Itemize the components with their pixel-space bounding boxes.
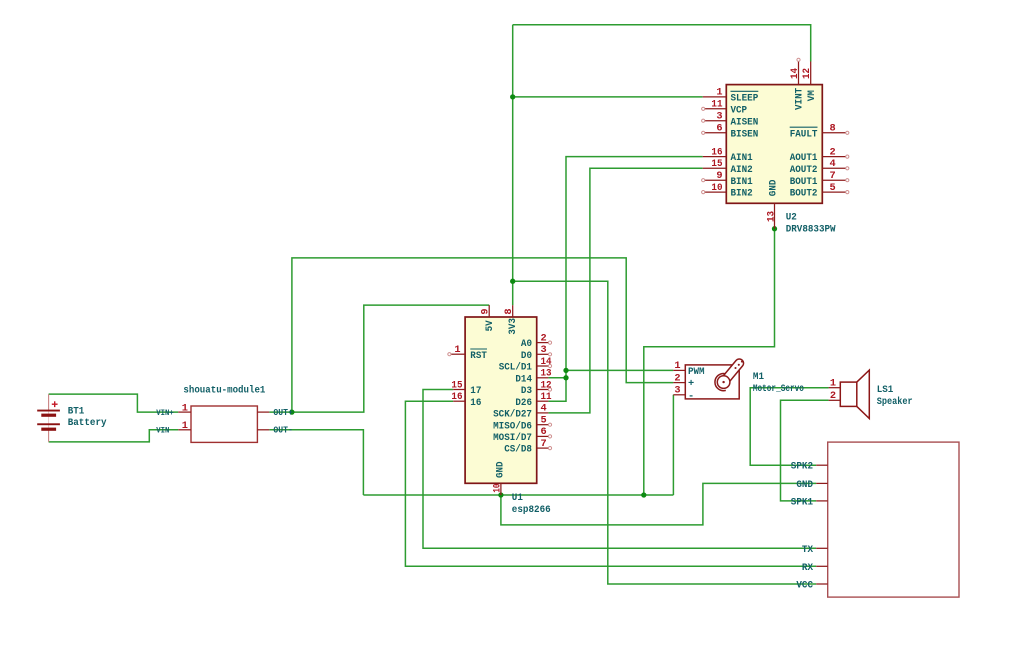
svg-text:esp8266: esp8266 — [512, 504, 551, 516]
junction PWM net — [563, 368, 568, 373]
svg-text:15: 15 — [451, 379, 462, 391]
svg-text:BISEN: BISEN — [731, 128, 759, 140]
MODULE1 pin 1 VIN — [156, 420, 191, 435]
M1 pin 1 PWM — [673, 360, 704, 378]
U1 pin 10 GND (bottom) — [492, 461, 507, 495]
svg-text:AIN2: AIN2 — [731, 164, 753, 176]
svg-text:3V3: 3V3 — [507, 318, 519, 335]
U2 pin 8 FAULT — [790, 123, 849, 141]
svg-text:MISO/D6: MISO/D6 — [493, 420, 532, 432]
svg-text:RX: RX — [802, 562, 814, 574]
U1 pin 16 (16) — [451, 391, 481, 409]
svg-text:VM: VM — [806, 90, 818, 101]
wire OUT- to GND bus — [269, 430, 363, 495]
svg-text:1: 1 — [182, 403, 188, 415]
wire AIN2 to SCK/D27 — [548, 168, 702, 413]
svg-text:9: 9 — [716, 170, 722, 182]
U2 pin 5 BOUT2 — [790, 182, 849, 200]
wire SLEEP — [513, 96, 703, 98]
U1 pin 3 D0 — [521, 344, 552, 362]
U2 pin 2 AOUT1 — [790, 146, 849, 164]
wire battery plus to VIN+ — [49, 394, 179, 412]
svg-text:D0: D0 — [521, 350, 532, 362]
svg-text:BT1: BT1 — [68, 405, 85, 417]
svg-text:5V: 5V — [484, 320, 496, 332]
wire GND bus — [363, 494, 673, 496]
svg-text:SPK2: SPK2 — [791, 461, 813, 473]
label Battery — [68, 417, 107, 429]
svg-text:1: 1 — [674, 360, 680, 372]
svg-text:16: 16 — [470, 397, 481, 409]
battery BT1 symbol — [37, 394, 60, 442]
U1 pin 12 D3 — [521, 379, 552, 397]
junction D14 net — [563, 375, 568, 380]
wire speaker pin2 to SPK1 — [781, 400, 829, 501]
svg-text:AOUT1: AOUT1 — [790, 152, 818, 164]
junction 3V3/VCC net — [510, 279, 515, 284]
svg-text:6: 6 — [541, 426, 547, 438]
svg-text:GND: GND — [495, 461, 507, 478]
svg-text:2: 2 — [674, 372, 680, 384]
speaker LS1 symbol — [840, 370, 869, 418]
svg-text:17: 17 — [470, 385, 481, 397]
svg-text:VCC: VCC — [796, 580, 813, 592]
J1 pin RX — [802, 562, 828, 574]
junction OUT+ — [289, 409, 294, 414]
U2 pin 13 GND (bottom) — [765, 180, 779, 229]
svg-text:1: 1 — [454, 344, 460, 356]
svg-text:3: 3 — [716, 111, 722, 123]
U2 pin 10 BIN2 — [702, 182, 753, 200]
svg-text:BIN2: BIN2 — [731, 188, 753, 200]
svg-text:SLEEP: SLEEP — [731, 93, 759, 105]
U2 pin 3 AISEN — [702, 111, 759, 129]
svg-text:2: 2 — [830, 390, 836, 402]
svg-text:16: 16 — [451, 391, 462, 403]
U2 pin 15 AIN2 — [703, 158, 753, 176]
connector J1 body (bottom right box) — [828, 442, 959, 597]
U2 pin 9 BIN1 — [702, 170, 753, 188]
svg-text:A0: A0 — [521, 338, 532, 350]
svg-text:PWM: PWM — [688, 366, 705, 378]
wire TX — [423, 390, 816, 549]
svg-text:D26: D26 — [515, 397, 532, 409]
U1 pin 6 MOSI/D7 — [493, 426, 552, 444]
label shouatu-module1 — [183, 385, 265, 397]
label U1 — [512, 492, 523, 504]
U1 pin 14 SCL/D1 — [499, 356, 552, 374]
wire VCC from 3V3 junction — [513, 281, 817, 584]
svg-text:VIN: VIN — [156, 426, 169, 436]
wire OUT+ to M1 plus — [292, 258, 673, 412]
wire U2 GND down — [644, 229, 775, 495]
svg-text:4: 4 — [830, 158, 836, 170]
motor M1 body (Motor_Servo) — [685, 361, 743, 399]
wire GND to box — [501, 483, 816, 525]
U1 pin 13 D14 — [515, 368, 551, 386]
label Motor_Servo — [753, 383, 804, 395]
svg-text:11: 11 — [711, 99, 722, 111]
svg-text:8: 8 — [503, 308, 515, 314]
svg-text:2: 2 — [830, 146, 836, 158]
wire AIN1 to D26 — [548, 157, 702, 402]
svg-text:D14: D14 — [515, 373, 532, 385]
svg-text:+: + — [688, 378, 694, 390]
U1 pin 11 D26 — [515, 391, 551, 409]
op-amp U2 body (DRV8833PW) — [726, 85, 822, 204]
U1 pin 5 MISO/D6 — [493, 415, 552, 433]
svg-text:-: - — [688, 390, 694, 402]
MODULE1 pin 1 VIN+ — [156, 403, 191, 418]
U2 pin 1 SLEEP — [703, 87, 759, 105]
svg-text:3: 3 — [541, 344, 547, 356]
svg-text:TX: TX — [802, 544, 814, 556]
wire M1 minus — [672, 395, 674, 495]
svg-text:4: 4 — [541, 403, 547, 415]
svg-text:8: 8 — [830, 123, 836, 135]
U2 pin 7 BOUT1 — [790, 170, 849, 188]
svg-text:10: 10 — [492, 484, 504, 493]
U1 pin 8 3V3 (top) — [503, 305, 519, 334]
svg-text:CS/D8: CS/D8 — [504, 444, 532, 456]
svg-text:OUT+: OUT+ — [273, 407, 293, 418]
U2 pin 11 VCP — [702, 99, 747, 117]
svg-text:SPK1: SPK1 — [791, 496, 813, 508]
svg-text:15: 15 — [711, 158, 722, 170]
svg-text:5: 5 — [830, 182, 836, 194]
wire 3V3 vertical — [512, 25, 514, 305]
wire speaker pin1 to SPK2 — [750, 388, 828, 466]
svg-text:VINT: VINT — [794, 88, 806, 110]
wire VM top — [513, 25, 811, 62]
svg-text:9: 9 — [480, 308, 492, 314]
svg-text:6: 6 — [716, 123, 722, 135]
svg-text:GND: GND — [768, 180, 780, 197]
svg-text:14: 14 — [541, 356, 552, 368]
label esp8266 — [512, 504, 551, 516]
svg-text:SCK/D27: SCK/D27 — [493, 409, 532, 421]
svg-text:13: 13 — [541, 368, 552, 380]
svg-text:Speaker: Speaker — [877, 396, 913, 408]
svg-text:AOUT2: AOUT2 — [790, 164, 818, 176]
module MODULE1 body (shouatu-module1) — [191, 406, 257, 442]
wire PWM — [566, 369, 673, 371]
M1 pin 3 - — [673, 385, 694, 403]
LS1 pin 2 — [829, 390, 841, 402]
U1 pin 15 (17) — [451, 379, 481, 397]
svg-text:13: 13 — [765, 211, 777, 222]
svg-text:11: 11 — [541, 391, 552, 403]
svg-text:LS1: LS1 — [877, 384, 894, 396]
U2 pin 16 AIN1 — [703, 146, 753, 164]
label DRV8833PW — [786, 223, 837, 235]
wire RX — [405, 401, 816, 566]
svg-text:3: 3 — [674, 385, 680, 397]
svg-text:BOUT2: BOUT2 — [790, 188, 818, 200]
svg-text:14: 14 — [789, 68, 801, 79]
label LS1 — [877, 384, 894, 396]
U1 pin 7 CS/D8 — [504, 438, 551, 456]
U1 pin 4 SCK/D27 — [493, 403, 548, 421]
label Speaker — [877, 396, 913, 408]
MODULE1 pin OUT- — [257, 425, 293, 436]
MODULE1 pin OUT+ — [257, 407, 293, 418]
svg-text:DRV8833PW: DRV8833PW — [786, 223, 837, 235]
svg-text:M1: M1 — [753, 371, 764, 383]
svg-text:10: 10 — [711, 182, 722, 194]
IC U1 body (esp8266) — [465, 317, 537, 483]
J1 pin GND — [796, 479, 827, 491]
svg-text:1: 1 — [716, 87, 722, 99]
U1 pin 2 A0 — [521, 332, 552, 350]
svg-text:1: 1 — [830, 378, 836, 390]
svg-text:SCL/D1: SCL/D1 — [499, 362, 532, 374]
U2 pin 12 VM (top) — [801, 62, 818, 102]
svg-text:7: 7 — [830, 170, 836, 182]
svg-text:D3: D3 — [521, 385, 532, 397]
svg-text:Motor_Servo: Motor_Servo — [753, 383, 804, 395]
svg-text:FAULT: FAULT — [790, 128, 818, 140]
svg-text:MOSI/D7: MOSI/D7 — [493, 432, 532, 444]
J1 pin VCC — [796, 580, 827, 592]
U2 pin 4 AOUT2 — [790, 158, 849, 176]
svg-text:Battery: Battery — [68, 417, 107, 429]
U1 pin 9 5V (top) — [480, 305, 497, 331]
wire D14 — [548, 377, 566, 379]
svg-text:5: 5 — [541, 415, 547, 427]
svg-text:7: 7 — [541, 438, 547, 450]
svg-text:OUT-: OUT- — [273, 425, 293, 436]
svg-text:AISEN: AISEN — [731, 116, 759, 128]
svg-text:VCP: VCP — [731, 104, 748, 116]
U2 pin 6 BISEN — [702, 123, 759, 141]
label BT1 — [68, 405, 85, 417]
svg-text:16: 16 — [711, 146, 722, 158]
U2 pin 14 VINT (top, unconnected) — [789, 58, 806, 110]
J1 pin SPK1 — [791, 496, 828, 508]
wire battery minus to VIN — [49, 430, 179, 442]
U1 pin 1 RST — [448, 344, 487, 362]
junction U1 GND — [498, 492, 503, 497]
svg-text:BIN1: BIN1 — [731, 176, 753, 188]
LS1 pin 1 — [829, 378, 841, 390]
label M1 — [753, 371, 764, 383]
J1 pin SPK2 — [791, 461, 828, 473]
svg-text:RST: RST — [470, 350, 487, 362]
junction U2 GND on bus — [641, 492, 646, 497]
svg-text:12: 12 — [541, 379, 552, 391]
svg-text:AIN1: AIN1 — [731, 152, 753, 164]
J1 pin TX — [802, 544, 828, 556]
svg-text:12: 12 — [801, 68, 813, 79]
M1 pin 2 + — [673, 372, 694, 390]
svg-text:2: 2 — [541, 332, 547, 344]
svg-text:U1: U1 — [512, 492, 523, 504]
junction U2 GND pin — [772, 226, 777, 231]
svg-text:BOUT1: BOUT1 — [790, 176, 818, 188]
svg-text:1: 1 — [182, 420, 188, 432]
svg-text:GND: GND — [796, 479, 813, 491]
svg-text:U2: U2 — [786, 212, 797, 224]
junction SLEEP/3V3 net — [510, 94, 515, 99]
label U2 — [786, 212, 797, 224]
svg-text:VIN+: VIN+ — [156, 408, 174, 418]
svg-text:shouatu-module1: shouatu-module1 — [183, 385, 265, 397]
wire OUT+ to 5V — [269, 305, 489, 412]
